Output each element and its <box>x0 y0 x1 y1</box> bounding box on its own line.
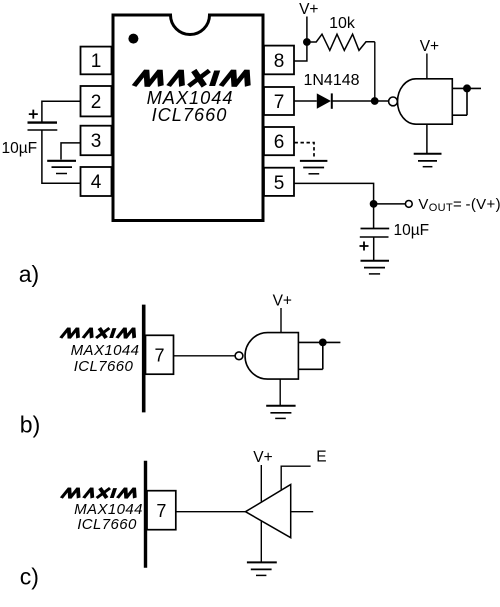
svg-text:2: 2 <box>91 92 102 113</box>
junction dot (diode node) <box>371 97 379 105</box>
wire V+ to gate (b) <box>280 308 282 333</box>
svg-text:4: 4 <box>91 172 102 193</box>
wire pin3 to ground <box>61 143 81 160</box>
pin-1 marker dot <box>128 34 138 44</box>
diode D1 1N4148 <box>317 93 331 108</box>
pin 3 <box>81 126 112 156</box>
pin 7 box (c) <box>147 491 176 530</box>
terminal VOUT <box>405 201 412 208</box>
pin 7 <box>264 87 294 115</box>
wire diode to gate input <box>332 100 389 102</box>
gate U2 (inverter drawn as mirrored NAND) <box>398 79 453 124</box>
wire pin7 to buffer (c) <box>176 511 246 513</box>
wire V+ to node <box>306 17 308 43</box>
capacitor C1 plus sign <box>29 110 38 119</box>
svg-text:V+: V+ <box>299 1 318 18</box>
wire buffer to ground (c) <box>260 521 262 562</box>
svg-text:b): b) <box>20 412 40 438</box>
wire C1 to pin4 <box>42 130 81 183</box>
ground (C2) <box>361 261 390 274</box>
wire node to terminal <box>374 203 406 205</box>
pin 6 <box>264 127 294 155</box>
svg-text:ICL7660: ICL7660 <box>77 516 137 533</box>
svg-text:6: 6 <box>274 132 285 153</box>
svg-text:c): c) <box>20 564 39 590</box>
svg-text:a): a) <box>19 261 39 287</box>
svg-text:5: 5 <box>274 173 285 194</box>
pin 7 box (b) <box>146 335 174 374</box>
wire pin7 to gate bubble (b) <box>174 355 235 357</box>
junction dot (gate U2 tied inputs) <box>463 84 471 92</box>
wire gate b to ground <box>279 379 281 405</box>
gate U3 (mirrored NAND, figure b) <box>245 333 298 380</box>
svg-text:1N4148: 1N4148 <box>303 72 359 89</box>
dashed wire pin6 to ground <box>295 143 315 159</box>
MAXIM logo (IC U1) <box>134 70 253 86</box>
MAXIM logo (figure c) <box>61 488 138 498</box>
MAXIM logo (figure b) <box>61 328 138 338</box>
svg-text:V+: V+ <box>273 293 292 310</box>
svg-text:V+: V+ <box>253 449 272 466</box>
junction dot (gate b inputs) <box>319 339 327 347</box>
ground (gate b) <box>266 406 295 419</box>
svg-text:7: 7 <box>154 346 164 366</box>
svg-text:3: 3 <box>91 131 102 152</box>
bubble (gate U2 input) <box>389 97 398 106</box>
capacitor C2 plus sign <box>360 242 369 251</box>
wire pin5 to output node <box>294 183 374 204</box>
IC edge bar (b) <box>142 305 146 413</box>
svg-text:ICL7660: ICL7660 <box>74 358 134 375</box>
wire pin8 to node <box>294 42 307 61</box>
svg-text:7: 7 <box>274 92 285 113</box>
IC edge bar (c) <box>144 461 147 568</box>
svg-text:10µF: 10µF <box>2 140 38 157</box>
wire pin2 to C1 <box>42 101 81 122</box>
ground (pin 6) <box>300 161 328 174</box>
svg-text:ICL7660: ICL7660 <box>152 105 228 125</box>
capacitor C2 10uF <box>361 228 390 230</box>
svg-text:1: 1 <box>91 51 102 72</box>
pin 2 <box>81 86 112 116</box>
svg-text:E: E <box>316 448 326 465</box>
svg-text:10µF: 10µF <box>394 222 430 239</box>
pin 4 <box>81 167 112 196</box>
junction dot (V+ node) <box>303 38 311 46</box>
resistor R1 10k <box>307 34 375 50</box>
ground (gate U2) <box>414 154 442 167</box>
pin 1 <box>81 47 112 75</box>
ground (buffer c) <box>247 562 277 575</box>
bubble (gate b input) <box>235 352 243 360</box>
wire V+ to buffer top edge <box>260 465 262 502</box>
capacitor C1 10uF <box>28 121 58 123</box>
junction dot (output node) <box>370 200 378 208</box>
wire E to buffer <box>281 466 310 490</box>
svg-text:MAX1044: MAX1044 <box>71 342 140 359</box>
wire gate U2 to ground <box>426 124 428 153</box>
wire node to C2 <box>373 204 375 228</box>
ground (pin 3) <box>47 161 76 174</box>
gate U2 tied input stubs <box>452 88 481 115</box>
svg-text:7: 7 <box>156 501 166 521</box>
gate b tied input stubs <box>298 342 340 369</box>
pin 8 <box>264 46 294 75</box>
svg-text:8: 8 <box>274 51 285 72</box>
wire R1 down to diode node <box>374 42 376 101</box>
output wire (c) <box>291 511 314 513</box>
wire C2 to ground <box>373 237 375 260</box>
wire pin7 to diode <box>294 100 317 102</box>
wire V+ to gate U2 <box>426 54 428 79</box>
buffer U4 (mirrored triangle, figure c) <box>246 485 291 538</box>
pin 5 <box>264 168 294 196</box>
svg-text:V+: V+ <box>420 38 439 55</box>
svg-text:10k: 10k <box>329 15 356 32</box>
IC U1 body MAX1044/ICL7660 <box>113 15 263 221</box>
